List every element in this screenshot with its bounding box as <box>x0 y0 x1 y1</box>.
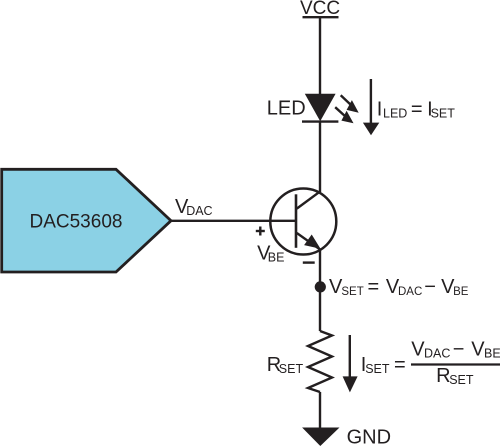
LED light emission arrow 1 <box>341 95 359 113</box>
svg-text:SET: SET <box>365 362 390 376</box>
VCC rail bar <box>303 16 339 18</box>
transistor Q1 body circle <box>270 189 336 255</box>
LED light emission arrow 2 <box>335 107 353 123</box>
label VSET = VDAC - VBE <box>329 276 469 298</box>
minus sign VBE <box>303 261 315 263</box>
svg-text:BE: BE <box>268 251 285 265</box>
transistor Q1 emitter arrowhead <box>304 235 320 249</box>
svg-text:SET: SET <box>449 373 474 387</box>
svg-text:BE: BE <box>484 347 500 361</box>
resistor RSET zigzag <box>308 331 332 392</box>
LED D1 anode triangle <box>305 94 336 121</box>
svg-text:=: = <box>394 354 406 376</box>
DAC53608 block <box>2 169 171 272</box>
label ISET = <box>361 354 406 376</box>
svg-text:SET: SET <box>279 362 304 376</box>
label RSET <box>267 354 304 376</box>
svg-text:LED: LED <box>383 107 407 121</box>
transistor Q1 emitter lead <box>297 233 321 250</box>
ground symbol <box>302 428 339 446</box>
wire VCC to LED anode <box>319 17 321 95</box>
current arrow ILED <box>363 79 379 135</box>
transistor Q1 collector lead <box>297 191 321 208</box>
svg-text:BE: BE <box>453 286 469 298</box>
svg-text:I: I <box>377 99 383 121</box>
svg-text:=: = <box>411 99 423 121</box>
label VBE <box>257 242 284 264</box>
node VSET junction dot <box>315 281 326 292</box>
svg-text:LED: LED <box>267 97 306 119</box>
current arrow ISET <box>343 335 358 392</box>
wire emitter to node <box>319 249 321 331</box>
svg-text:−: − <box>424 276 436 298</box>
svg-text:=: = <box>368 276 380 298</box>
svg-text:−: − <box>453 339 465 361</box>
svg-text:DAC: DAC <box>424 347 450 361</box>
label VDAC <box>175 196 213 218</box>
wire DAC output to base <box>171 220 296 222</box>
svg-text:DAC: DAC <box>186 204 212 218</box>
wire LED cathode to collector <box>319 122 321 192</box>
label ILED = ISET <box>377 99 456 121</box>
LED D1 cathode bar <box>302 120 338 122</box>
svg-text:SET: SET <box>341 286 363 298</box>
formula fraction bar <box>411 363 500 365</box>
formula denominator RSET <box>436 365 474 387</box>
svg-text:GND: GND <box>347 426 391 446</box>
plus sign VBE <box>256 227 265 236</box>
svg-text:DAC: DAC <box>398 286 422 298</box>
formula numerator VDAC - VBE <box>411 339 500 361</box>
svg-text:DAC53608: DAC53608 <box>30 212 123 233</box>
wire resistor to GND <box>319 392 321 428</box>
svg-text:SET: SET <box>431 107 456 121</box>
transistor Q1 base bar <box>295 194 298 248</box>
